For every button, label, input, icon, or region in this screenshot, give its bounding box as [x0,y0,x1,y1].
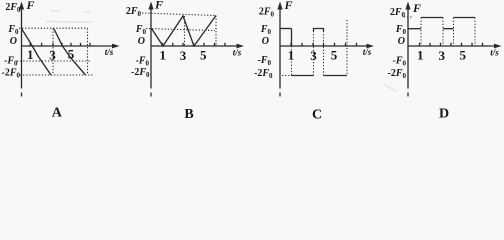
svg-text:3: 3 [49,48,56,63]
D x-axis [408,45,499,47]
svg-text:A: A [52,106,63,121]
A ticks [30,43,90,46]
C y-axis arrow [277,2,282,10]
B y-axis arrow [148,2,153,10]
C y-axis [279,6,281,89]
C x-axis [280,45,371,47]
C negative pulse 1 bottom [291,75,313,77]
A sawtooth segment 1 [22,29,51,75]
B y-axis tail dash [150,93,152,97]
C dotted vertical t=1 below axis [291,46,293,76]
B dotted vertical at peak 2 [215,16,217,47]
C negative pulse 2 bottom [324,75,348,77]
svg-text:5: 5 [331,48,338,63]
svg-text:t/s: t/s [105,47,114,57]
svg-text:O: O [398,36,405,47]
svg-text:F: F [412,1,421,15]
svg-text:t/s: t/s [233,48,242,58]
faint scan smudges [46,11,397,92]
D F0 segment 2 [443,28,454,30]
svg-text:1: 1 [417,48,424,63]
A y-axis tail dash [21,93,23,97]
svg-text:B: B [184,107,193,122]
B x-axis [151,45,241,47]
B x-axis arrow [237,44,245,49]
svg-text:5: 5 [459,48,466,63]
svg-text:3: 3 [310,48,317,63]
A dotted -2F0 line [20,74,93,76]
C dotted vertical t=4 [323,31,325,76]
svg-text:1: 1 [288,48,295,63]
svg-text:1: 1 [27,47,34,62]
D x-axis arrow [494,44,502,49]
C x-axis arrow [367,44,375,49]
D dotted vertical t=4 [453,18,455,47]
D dotted 2F0 stub left of axis [404,16,413,18]
svg-text:3: 3 [180,48,187,63]
D y-axis [407,6,409,89]
svg-text:O: O [138,36,145,47]
svg-text:C: C [312,108,322,123]
svg-text:D: D [439,107,449,122]
svg-text:t/s: t/s [363,47,372,57]
svg-text:t/s: t/s [490,48,499,58]
C dotted vertical t=6 [346,20,348,76]
D dotted vertical t=3 [442,18,444,47]
B dotted vertical at t=3 [184,16,186,46]
A y-axis [21,6,23,89]
svg-text:1: 1 [159,48,166,63]
svg-text:O: O [10,36,17,47]
svg-text:5: 5 [68,47,75,62]
D ticks [420,43,483,46]
D 2F0 segment 2 [454,17,476,19]
svg-text:F: F [284,0,293,12]
B y-axis [150,6,152,89]
D 2F0 segment 1 [421,17,443,19]
D y-axis arrow [405,2,410,10]
B ticks [163,43,226,46]
C pulse 1 right edge solid [291,29,293,47]
svg-text:5: 5 [200,48,207,63]
A dotted F0 line [19,27,88,29]
C dotted vertical t=3 [313,31,315,76]
C y-axis tail dash [279,93,281,97]
A sawtooth segment 2 [54,29,86,75]
C ticks [291,43,357,46]
B dotted 2F0 line [142,13,216,16]
D dotted vertical t=6 [474,18,476,47]
svg-text:F: F [154,0,163,12]
A dotted vertical at t=6 [87,29,89,76]
C pulse 2 top at F0 [314,29,324,32]
D y-axis tail dash [407,93,409,97]
A y-axis arrow [19,2,24,10]
svg-text:F: F [26,0,35,12]
D F0 segment 1 [408,28,421,30]
A dotted vertical at t=3 [52,29,54,76]
D dotted vertical t=1 [420,18,422,47]
svg-text:3: 3 [438,48,445,63]
C pulse 1 top at F0 [280,28,292,30]
A x-axis arrow [112,44,120,49]
svg-text:O: O [262,36,269,47]
A dotted -F0 line [17,60,91,62]
C dashes -2F0 near axis [282,75,290,77]
A x-axis [22,45,117,47]
B triangle wave [152,16,217,47]
B dotted F0 line [146,29,215,31]
